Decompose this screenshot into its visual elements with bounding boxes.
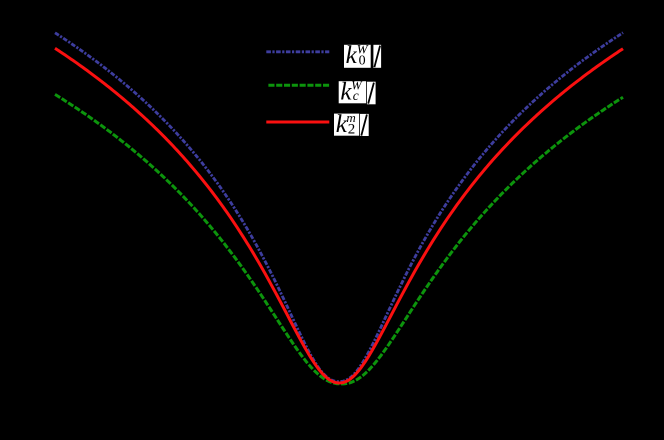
legend line blue dash-dot	[266, 50, 329, 53]
legend label row1 slash	[373, 45, 381, 68]
legend label row3 box k_2^m	[334, 110, 359, 138]
legend label row2 slash	[367, 82, 376, 105]
legend line green dashed	[268, 84, 329, 87]
curve kcW green dashed	[55, 94, 623, 384]
svg-text:2: 2	[348, 121, 356, 137]
legend line red solid	[266, 121, 329, 124]
svg-text:0: 0	[359, 53, 366, 68]
svg-text:k: k	[346, 42, 358, 69]
legend label row1 box k_0^W	[344, 42, 371, 69]
curve k0W blue dash-dot	[55, 33, 623, 382]
legend label row2 box k_c^W	[339, 79, 366, 106]
svg-text:c: c	[353, 88, 359, 103]
legend label row3 slash	[360, 114, 369, 136]
curve k2m red solid	[55, 48, 623, 383]
